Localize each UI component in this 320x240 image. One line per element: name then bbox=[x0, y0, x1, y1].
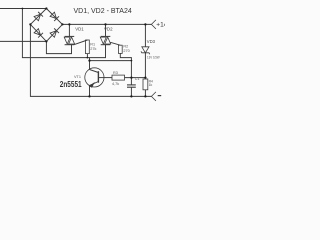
svg-text:VD3: VD3 bbox=[147, 39, 156, 44]
resistor R2 bbox=[118, 45, 122, 53]
resistor R1 bbox=[86, 40, 90, 54]
node top vertex bbox=[45, 7, 47, 9]
svg-text:2n5551: 2n5551 bbox=[60, 79, 82, 89]
node left vertex bbox=[29, 23, 31, 25]
capacitor C1 bottom lead bbox=[130, 88, 132, 97]
node collector wire to C1 vertical bbox=[131, 60, 133, 62]
node emitter ground bbox=[88, 95, 90, 97]
wire zener branch top bbox=[144, 24, 146, 46]
bridge diode D4 bottom-right edge bbox=[50, 28, 59, 37]
wire vertical x=22.4 from top wire down then right to VD2 bottom bbox=[22, 9, 105, 58]
wire bridge edge T-L bbox=[30, 9, 46, 25]
node C1 base bbox=[130, 76, 132, 78]
node VD2 top bbox=[104, 23, 106, 25]
terminal arrow +14 bbox=[151, 20, 156, 25]
node R4 ground bbox=[144, 95, 146, 97]
terminal arrow minus bbox=[151, 92, 156, 97]
wire VD1 top lead bbox=[68, 24, 70, 36]
minus sign bbox=[158, 95, 162, 97]
wire bottom vertex down then right up to VD1 bottom bbox=[46, 41, 71, 53]
wire collector node to C1 branch y=61 bbox=[90, 60, 132, 62]
wire minus rail: left vertex down and along bottom bbox=[30, 24, 151, 96]
node zener top bbox=[144, 23, 146, 25]
svg-text:270: 270 bbox=[123, 49, 129, 53]
wire AC input top y=8.5 bbox=[0, 8, 46, 10]
wire VD2 top lead bbox=[105, 24, 107, 36]
node right vertex bbox=[61, 23, 63, 25]
transistor VT1 emitter with arrow bbox=[90, 82, 99, 97]
wire R2 bottom to base node via jog bbox=[120, 53, 131, 77]
triac VD1 gate wire to R1 bbox=[74, 40, 88, 45]
transistor VT1 collector vertical bbox=[89, 58, 91, 70]
wire R4 bottom lead bbox=[144, 90, 146, 97]
bridge diode D1 top-left edge bbox=[34, 12, 43, 21]
node zener base bbox=[144, 76, 146, 78]
wire bridge edge B-R bbox=[46, 24, 62, 41]
wire plus rail y=24.4 bbox=[62, 23, 151, 25]
transistor VT1 base bar bbox=[97, 71, 99, 83]
wire zener to base node bbox=[144, 53, 146, 78]
svg-text:VD2: VD2 bbox=[104, 26, 113, 31]
svg-text:13V 0,5W: 13V 0,5W bbox=[147, 56, 160, 60]
node bottom vertex bbox=[45, 40, 47, 42]
svg-text:4,7k: 4,7k bbox=[112, 82, 119, 86]
wire bridge edge L-B bbox=[30, 24, 46, 41]
wire bridge edge T-R bbox=[46, 9, 62, 25]
triac VD1 bbox=[64, 36, 74, 44]
svg-text:27k: 27k bbox=[90, 47, 96, 51]
node collector junction bbox=[88, 59, 90, 61]
zener diode VD3 bbox=[141, 47, 150, 55]
wire R3 to zener node bbox=[125, 77, 146, 79]
svg-text:VD1: VD1 bbox=[75, 26, 84, 31]
node T-junction x22 bbox=[22, 8, 24, 10]
node VD1 top bbox=[68, 23, 70, 25]
svg-text:R3: R3 bbox=[113, 71, 118, 75]
resistor R4 bbox=[143, 79, 148, 90]
transistor VT1 collector diagonal bbox=[90, 70, 99, 73]
node C1 ground bbox=[130, 95, 132, 97]
svg-text:C1: C1 bbox=[135, 77, 140, 81]
capacitor C1 plates bbox=[127, 84, 136, 86]
triac VD2 bbox=[100, 36, 110, 44]
node R1 lead junction bbox=[87, 57, 89, 59]
svg-text:1k: 1k bbox=[149, 83, 153, 87]
bridge diode D3 bottom-left edge bbox=[34, 28, 43, 37]
svg-text:+14: +14 bbox=[156, 22, 165, 29]
transistor VT1 circle bbox=[85, 68, 104, 87]
wire base to R3 bbox=[98, 77, 112, 79]
capacitor C1 top lead bbox=[130, 78, 132, 85]
svg-text:VD1, VD2 - BTA24: VD1, VD2 - BTA24 bbox=[74, 8, 132, 15]
triac VD2 gate wire to R2 bbox=[110, 42, 120, 45]
wire AC input second y=41.4 bbox=[0, 40, 46, 42]
resistor R3 bbox=[112, 75, 125, 80]
wire R1 bottom lead bbox=[86, 54, 88, 58]
bridge diode D2 top-right edge bbox=[50, 12, 59, 21]
